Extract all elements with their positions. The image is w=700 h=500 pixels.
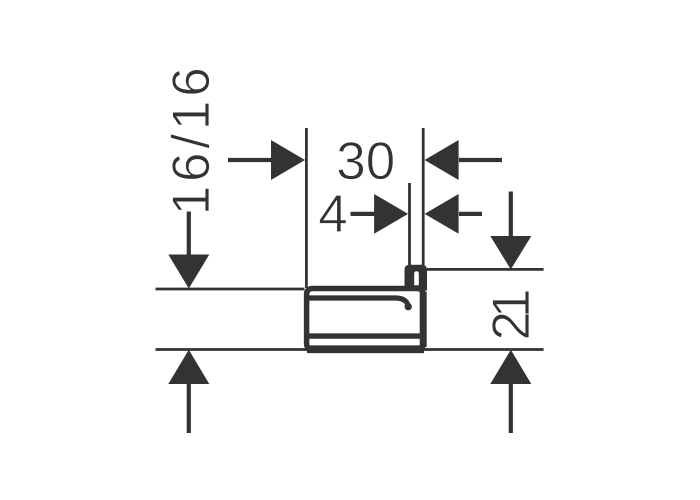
extension line C (middle, x=409.5) bbox=[408, 183, 411, 265]
rail inner upper J-line bbox=[308, 298, 408, 306]
dim arrow right-pointing (4 dim, left) bbox=[351, 194, 409, 234]
svg-text:16/16: 16/16 bbox=[162, 67, 221, 215]
dim arrow right-pointing (30 dim, left) bbox=[228, 140, 305, 180]
wall line bottom bbox=[156, 348, 544, 351]
dim arrow up (bottom left) bbox=[168, 350, 209, 433]
svg-text:30: 30 bbox=[336, 132, 395, 191]
svg-text:4: 4 bbox=[318, 185, 347, 244]
rail top hook bbox=[405, 265, 428, 291]
rail profile outer body bbox=[307, 289, 424, 350]
dim arrow up (21 dim, bottom right) bbox=[490, 350, 531, 433]
dim arrow down (21 dim, top) bbox=[490, 192, 531, 270]
extension line A (left, x=306.4) bbox=[305, 128, 308, 288]
extension line B (right, x=423.2) bbox=[422, 128, 425, 265]
wall line upper left bbox=[156, 288, 305, 291]
wall line upper right bbox=[427, 268, 544, 271]
svg-text:21: 21 bbox=[482, 289, 541, 341]
rail inner lower shelf line bbox=[308, 333, 420, 338]
dim arrow left-pointing (30 dim, right) bbox=[425, 140, 502, 180]
dim arrow down (16/16 dim, left) bbox=[168, 212, 209, 289]
dim arrow left-pointing (4 dim, right) bbox=[425, 194, 482, 234]
